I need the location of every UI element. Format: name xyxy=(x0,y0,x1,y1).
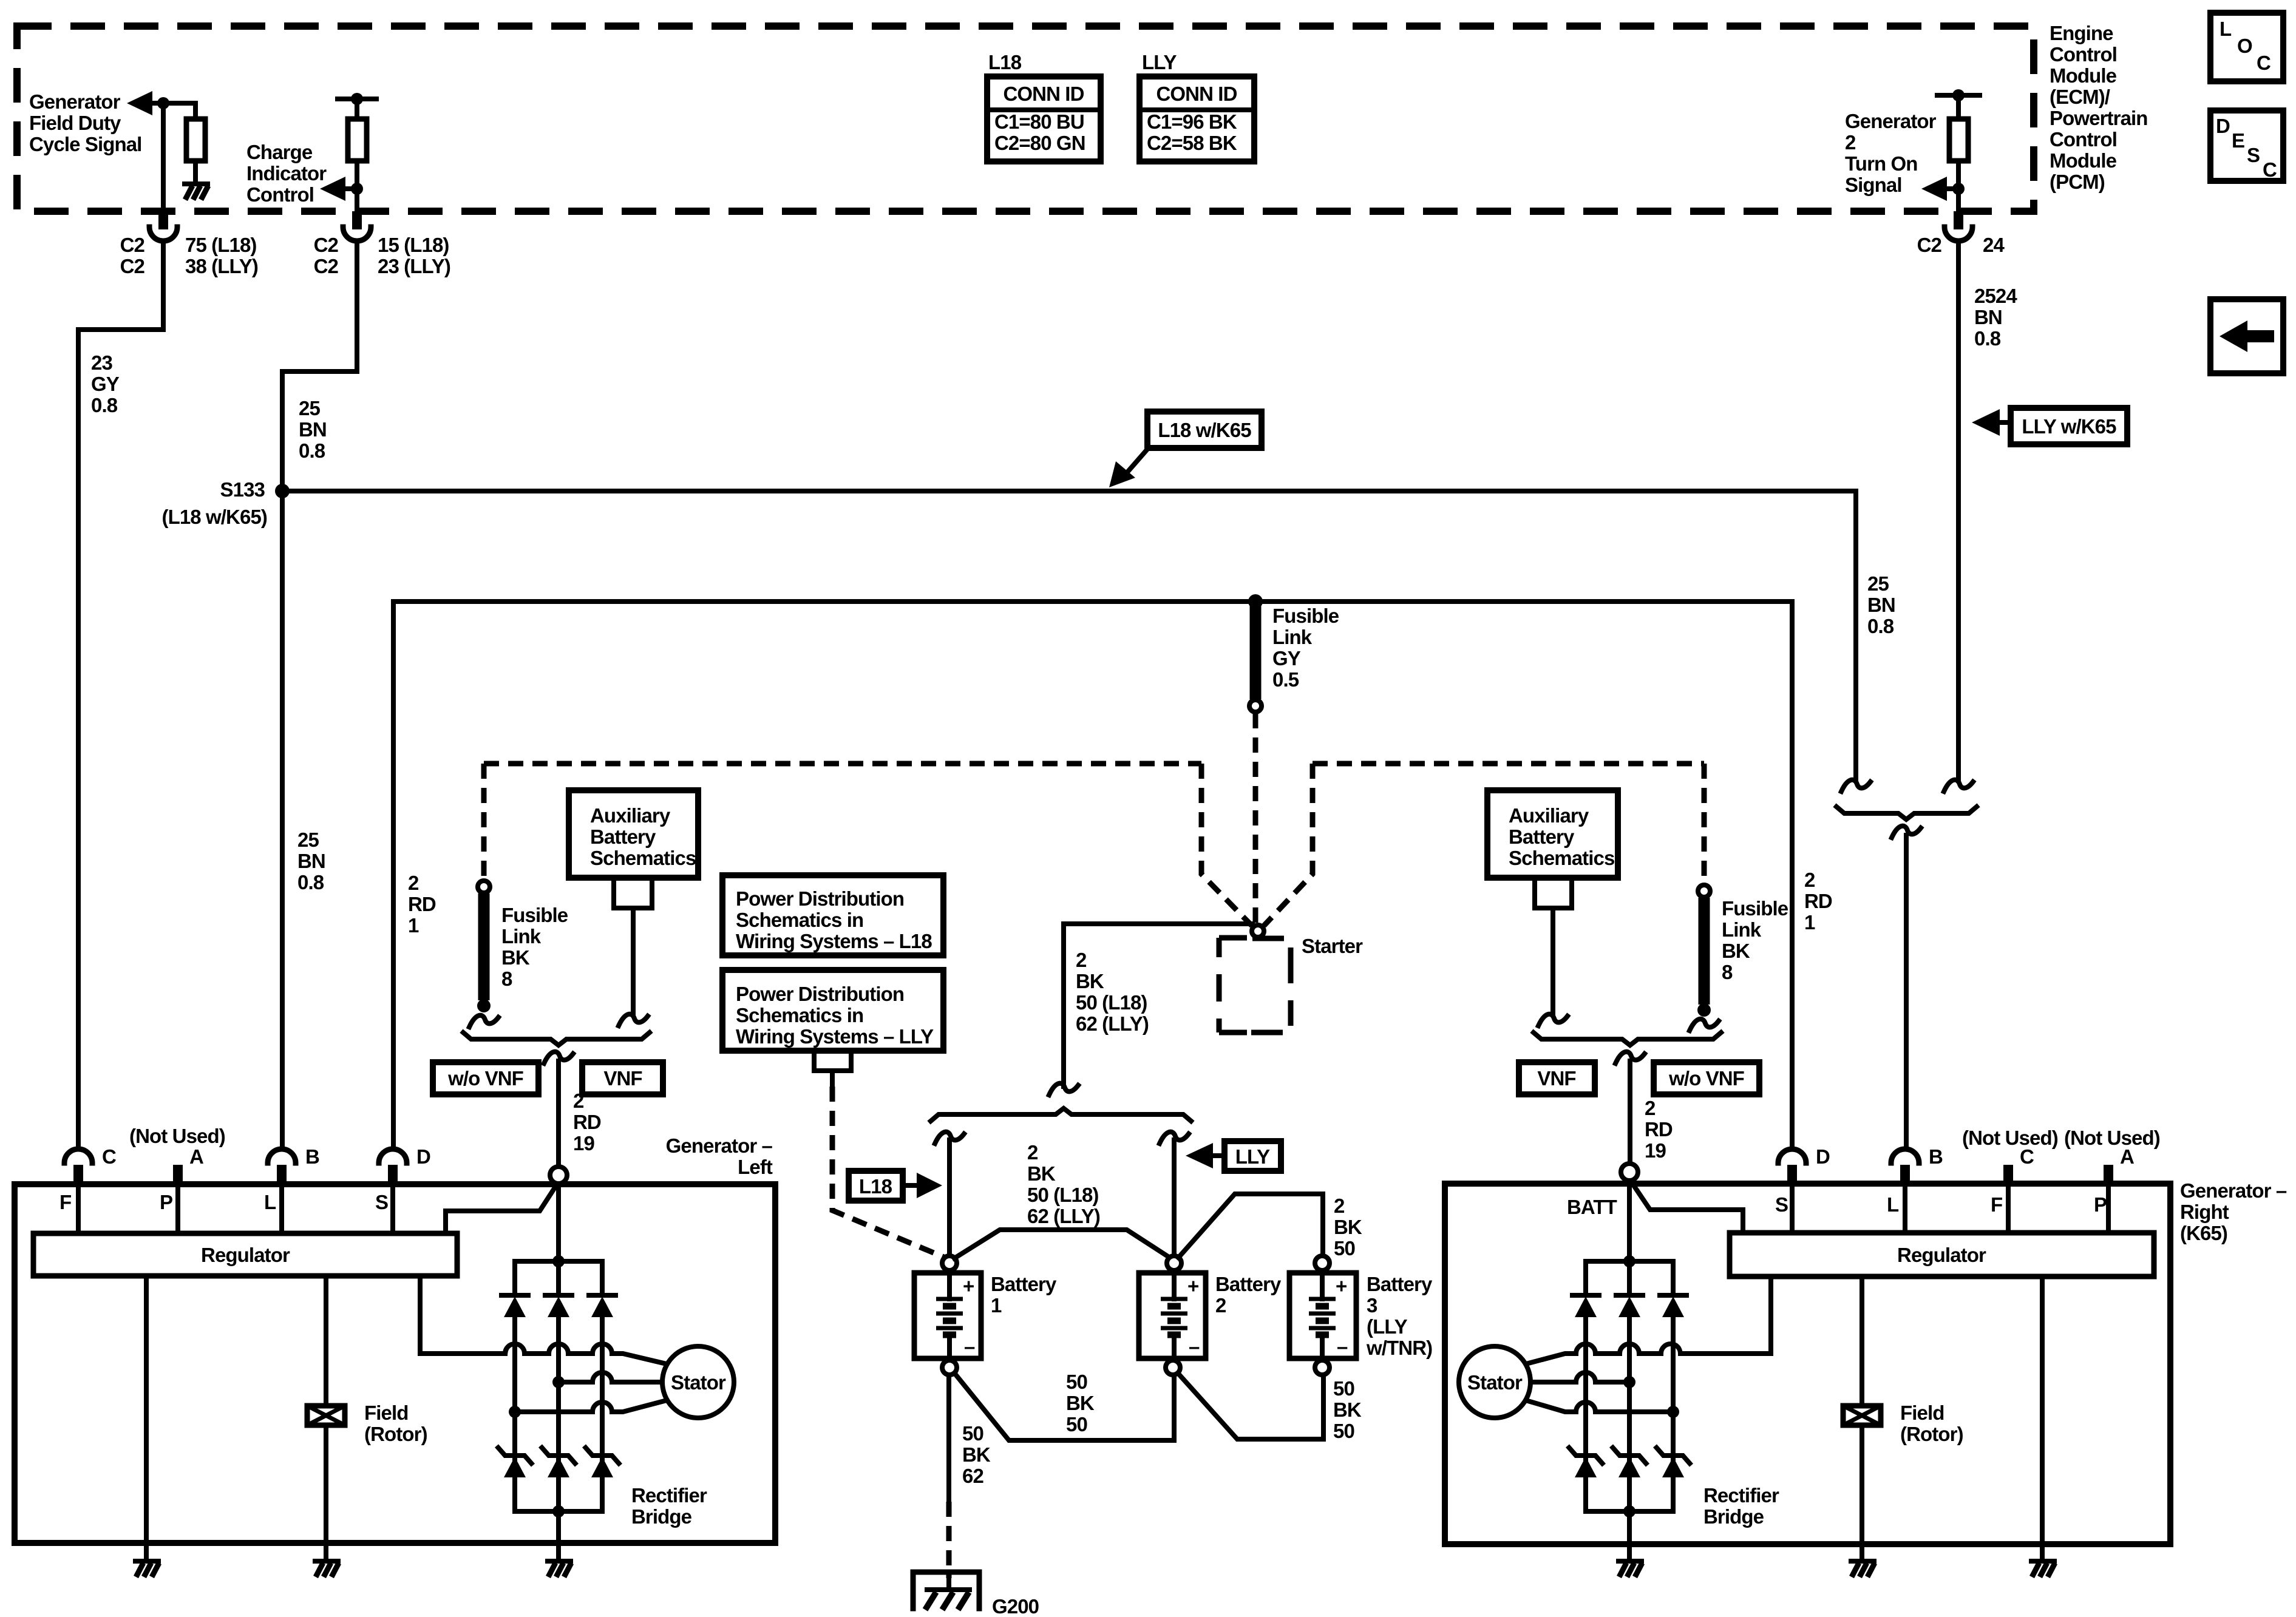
diode 2 top row right xyxy=(1616,1295,1643,1317)
wire starter to battery split xyxy=(1064,924,1252,1086)
wire battery2 positive leg xyxy=(1172,1140,1177,1255)
stator circle right xyxy=(1459,1346,1530,1418)
battery 2 cell plates xyxy=(1161,1270,1187,1360)
BATT terminal circle left generator xyxy=(550,1167,567,1184)
rectifier column 3 right xyxy=(1671,1261,1676,1511)
svg-text:(Not Used): (Not Used) xyxy=(129,1125,225,1147)
wire bar to resistor right xyxy=(1956,95,1961,119)
battery 1 cell plates xyxy=(936,1270,963,1360)
dashed drop to fusible link BK8 right xyxy=(1702,764,1707,883)
label box LLY w/K65 xyxy=(2011,408,2127,444)
wire break above battery brace xyxy=(1049,1083,1078,1095)
brace splitting starter wire to batteries xyxy=(931,1108,1191,1121)
battery 1 polarity marks xyxy=(963,1275,975,1358)
wire regulator to ground 1 xyxy=(144,1276,149,1561)
fork under power distribution LLY box xyxy=(814,1051,851,1086)
svg-text:CONN ID: CONN ID xyxy=(1156,83,1237,105)
CONN ID table L18 xyxy=(987,76,1101,161)
stator phase A wire with hops right xyxy=(1524,1344,1680,1364)
wire 23 GY 0.8 from connector to F pin xyxy=(78,242,163,1148)
wire regulator to field right xyxy=(1860,1276,1864,1406)
fork under aux box left xyxy=(614,878,652,1015)
svg-text:C2=58 BK: C2=58 BK xyxy=(1147,132,1237,154)
splice S133 xyxy=(275,484,290,498)
arrow from L18 box to battery1 wire (points right) xyxy=(903,1183,918,1188)
battery2 positive terminal xyxy=(1167,1256,1181,1270)
wire bus battery-feed horizontal (2 RD) xyxy=(393,599,1792,604)
wire 2 RD 19 left down to generator BATT xyxy=(556,1061,561,1167)
wire pin F to regulator right xyxy=(2006,1184,2011,1233)
ground symbol left gen 2 xyxy=(315,1561,339,1577)
wire break below left brace xyxy=(544,1052,573,1063)
connector C2 stub (charge indicator) xyxy=(352,211,362,229)
label box LLY (battery feed) xyxy=(1224,1141,1281,1171)
top bar generator2 resistor xyxy=(1937,93,1980,98)
regulator box left xyxy=(33,1233,457,1276)
wire break below right-top brace xyxy=(1892,826,1921,838)
svg-text:F: F xyxy=(1991,1193,2002,1216)
wire 2 RD 19 right down to generator BATT xyxy=(1628,1061,1632,1164)
node dot on battery feed bus xyxy=(1248,594,1263,609)
battery1 positive terminal xyxy=(942,1256,957,1270)
brace merging w/o VNF and VNF left xyxy=(463,1032,650,1045)
brace merging VNF and w/o VNF right xyxy=(1533,1032,1721,1045)
ground inside ECM xyxy=(185,184,208,200)
wire regulator to ground right xyxy=(2040,1276,2045,1561)
dashed harness drop right to starter xyxy=(1264,764,1313,926)
diode 3 top row left xyxy=(589,1295,616,1317)
wire 2524 BN 0.8 down xyxy=(1956,242,1961,781)
rectifier column 1 right xyxy=(1583,1261,1588,1511)
wire battery1+ to battery2+ (2 BK 50/62) xyxy=(954,1230,1170,1258)
battery3 negative terminal xyxy=(1315,1360,1330,1375)
svg-text:S: S xyxy=(1775,1193,1788,1216)
svg-text:Regulator: Regulator xyxy=(201,1244,290,1266)
fusible link BK8 left bottom dot xyxy=(477,999,491,1012)
svg-text:+: + xyxy=(963,1275,974,1297)
wire regulator to stator phases right xyxy=(1680,1276,1771,1354)
stator phase C wire with hop right xyxy=(1524,1400,1673,1412)
svg-text:A: A xyxy=(189,1145,203,1168)
wire 25 BN 0.8 upper segment xyxy=(282,242,357,491)
fusible link GY bottom terminal circle xyxy=(1249,700,1262,712)
svg-text:A: A xyxy=(2120,1145,2134,1168)
wire resistor to arrow node xyxy=(355,161,359,211)
BATT terminal circle right generator xyxy=(1621,1164,1638,1181)
back-arrow legend box xyxy=(2210,299,2283,373)
svg-text:–: – xyxy=(1189,1335,1200,1358)
wire pin S to regulator right xyxy=(1790,1184,1795,1233)
power distribution schematics L18 box xyxy=(722,875,943,955)
starter terminal circle xyxy=(1252,925,1264,937)
label box L18 w/K65 xyxy=(1147,412,1262,448)
fork under aux box right xyxy=(1535,878,1572,1015)
box VNF right xyxy=(1519,1062,1595,1094)
aux battery schematics box right xyxy=(1487,790,1618,878)
battery1 negative terminal xyxy=(942,1360,957,1375)
wire pin S to regulator xyxy=(390,1184,395,1233)
pin C stub right (not used) xyxy=(2003,1165,2013,1183)
dashed harness drop left to starter xyxy=(1201,764,1252,926)
svg-text:15 (L18)23 (LLY): 15 (L18)23 (LLY) xyxy=(378,234,450,277)
rectifier column 1 left xyxy=(512,1261,517,1511)
starter dashed box xyxy=(1219,938,1291,1032)
wire field duty down through dashed box xyxy=(161,103,166,211)
svg-text:Starter: Starter xyxy=(1302,935,1363,957)
LOC legend box xyxy=(2210,13,2283,81)
CONN ID table LLY xyxy=(1140,76,1254,161)
wire bar to resistor xyxy=(355,99,359,119)
wire battery1- to battery2- (50 BK 50) xyxy=(954,1373,1174,1440)
ground symbol right gen 3 xyxy=(2031,1561,2055,1577)
node dot charge indicator xyxy=(351,183,363,195)
wire resistor to ground xyxy=(193,161,198,183)
battery2 negative terminal xyxy=(1166,1360,1180,1375)
svg-text:C2C2: C2C2 xyxy=(120,234,145,277)
wire break fusible right xyxy=(1690,1019,1719,1031)
resistor inside ECM (charge indicator) xyxy=(348,119,367,161)
dashed drop to fusible link BK8 left xyxy=(481,764,487,879)
svg-text:P: P xyxy=(2094,1193,2107,1216)
svg-text:O: O xyxy=(2237,35,2252,57)
stator phase B wire with hop xyxy=(559,1372,663,1382)
generator right box xyxy=(1445,1184,2170,1544)
svg-text:LLY w/K65: LLY w/K65 xyxy=(2022,415,2116,438)
svg-text:75 (L18)38 (LLY): 75 (L18)38 (LLY) xyxy=(185,234,258,277)
svg-text:S: S xyxy=(2247,144,2260,166)
dashed wire to G200 xyxy=(946,1502,952,1578)
zener diode 1 bottom row left xyxy=(497,1446,533,1477)
svg-text:B: B xyxy=(305,1145,319,1168)
svg-text:D: D xyxy=(1816,1145,1830,1168)
dashed harness bus left xyxy=(484,761,1201,767)
rectifier column 2 right xyxy=(1627,1261,1632,1511)
ground symbol left gen 1 xyxy=(135,1561,159,1577)
ground symbol right gen 2 xyxy=(1851,1561,1875,1577)
pin D stub right xyxy=(1787,1165,1797,1183)
ECM/PCM module dashed box xyxy=(17,26,2034,211)
svg-text:L: L xyxy=(1887,1193,1899,1216)
wire break on 25 BN right xyxy=(1841,780,1870,792)
svg-text:F: F xyxy=(59,1191,71,1213)
svg-text:C: C xyxy=(102,1145,116,1168)
svg-text:L18 w/K65: L18 w/K65 xyxy=(1158,419,1251,441)
wire break fusible left xyxy=(469,1015,498,1027)
svg-text:L18: L18 xyxy=(859,1175,892,1198)
label box L18 (battery feed) xyxy=(849,1171,903,1201)
wire from node to resistor R-field xyxy=(163,103,195,119)
wire break battery1 leg xyxy=(935,1132,964,1144)
wire break below right brace xyxy=(1615,1052,1645,1063)
pin A stub (not used) xyxy=(173,1165,183,1183)
arrow charge indicator control (points left) xyxy=(320,177,345,201)
stator phase C wire with hop xyxy=(515,1400,669,1412)
svg-text:Regulator: Regulator xyxy=(1897,1244,1986,1266)
battery 3 cell plates xyxy=(1309,1270,1336,1360)
box w/o VNF left xyxy=(433,1062,538,1094)
arrow generator 2 turn on signal (points left) xyxy=(1921,177,1947,201)
rectifier column 2 left xyxy=(556,1261,561,1511)
wire 2 RD 1 left leg to generator-left pin D xyxy=(391,602,396,1148)
svg-text:Stator: Stator xyxy=(671,1371,726,1394)
svg-text:(Not Used): (Not Used) xyxy=(1962,1127,2058,1149)
node dot field duty xyxy=(157,97,169,109)
wire BATT down to rectifier xyxy=(556,1184,561,1261)
svg-text:24: 24 xyxy=(1983,234,2005,256)
svg-text:L: L xyxy=(2220,18,2232,40)
rectifier top bus left xyxy=(515,1259,602,1264)
rectifier top bus right xyxy=(1586,1259,1673,1264)
wire battery2- to battery3- (50 BK 50) xyxy=(1178,1373,1323,1439)
wire BATT to regulator right xyxy=(1634,1185,1743,1233)
svg-text:C1=80 BU: C1=80 BU xyxy=(994,110,1084,133)
dashed wire to battery 1 positive xyxy=(832,1086,945,1258)
wire resistor to arrow node right xyxy=(1956,161,1961,211)
pin B stub right xyxy=(1900,1165,1910,1183)
pin B connector dome right xyxy=(1891,1149,1919,1163)
svg-text:G200: G200 xyxy=(992,1595,1039,1617)
svg-text:E: E xyxy=(2232,129,2244,152)
svg-text:C: C xyxy=(2257,52,2271,74)
svg-text:LLY: LLY xyxy=(1142,51,1177,73)
battery 2 box xyxy=(1139,1273,1206,1358)
connector C2 cup (field duty) xyxy=(149,227,177,241)
wire break aux stem right xyxy=(1538,1014,1567,1026)
svg-text:D: D xyxy=(2216,115,2230,137)
wire rectifier to ground right xyxy=(1627,1511,1632,1561)
zener diode 3 bottom row right xyxy=(1655,1446,1691,1477)
wire break battery2 leg xyxy=(1160,1132,1189,1144)
arrow from LLY box to battery2 wire (points left) xyxy=(1212,1153,1224,1158)
svg-text:–: – xyxy=(1337,1335,1348,1358)
brace merging 25BN and 2524BN xyxy=(1836,807,1977,819)
wire break aux stem left xyxy=(619,1014,648,1026)
rectifier bottom bus right xyxy=(1586,1509,1673,1514)
svg-text:LLY: LLY xyxy=(1235,1145,1270,1168)
wire 2 RD 1 right leg to generator-right pin D xyxy=(1790,602,1795,1148)
svg-text:(Not Used): (Not Used) xyxy=(2064,1127,2160,1149)
pin C connector dome xyxy=(64,1149,92,1163)
top bar charge indicator resistor xyxy=(338,97,376,101)
svg-text:C: C xyxy=(2263,158,2277,181)
wire bus S133 horizontal xyxy=(282,489,1856,493)
svg-text:C2=80 GN: C2=80 GN xyxy=(994,132,1085,154)
dashed wire GY link to starter xyxy=(1253,713,1258,923)
battery 2 polarity marks xyxy=(1187,1275,1200,1358)
svg-text:C: C xyxy=(2020,1145,2034,1168)
svg-text:–: – xyxy=(964,1335,975,1358)
svg-text:B: B xyxy=(1929,1145,1943,1168)
wire battery1 positive leg xyxy=(947,1140,952,1255)
arrow generator field duty signal (points left) xyxy=(127,91,152,115)
regulator box right xyxy=(1730,1233,2154,1276)
wire regulator to field xyxy=(324,1276,328,1406)
stator circle left xyxy=(662,1346,734,1418)
wire pin P to regulator right xyxy=(2106,1184,2111,1233)
svg-text:L18: L18 xyxy=(988,51,1022,73)
battery 1 box xyxy=(914,1273,981,1358)
diode 1 top row left xyxy=(501,1295,528,1317)
svg-text:w/o VNF: w/o VNF xyxy=(1668,1067,1744,1090)
zener diode 1 bottom row right xyxy=(1567,1446,1604,1477)
wire battery2+ to battery3+ (2 BK 50) xyxy=(1178,1194,1323,1258)
svg-text:VNF: VNF xyxy=(603,1067,642,1090)
battery3 positive terminal xyxy=(1315,1256,1330,1270)
svg-text:Stator: Stator xyxy=(1467,1371,1523,1394)
wire pin L to regulator xyxy=(279,1184,284,1233)
stator phase A wire with hops xyxy=(505,1344,669,1364)
pin B stub xyxy=(277,1165,287,1183)
stator phase B wire with hop right xyxy=(1525,1372,1629,1382)
pin B connector dome xyxy=(268,1149,296,1163)
fusible link GY 0.5 element xyxy=(1250,605,1262,699)
diode 3 top row right xyxy=(1660,1295,1686,1317)
zener diode 2 bottom row left xyxy=(540,1446,577,1477)
svg-text:P: P xyxy=(160,1191,172,1213)
battery 3 box xyxy=(1289,1273,1356,1358)
ground symbol left gen 3 xyxy=(548,1561,571,1577)
svg-text:CONN ID: CONN ID xyxy=(1003,83,1084,105)
svg-text:w/o VNF: w/o VNF xyxy=(447,1067,523,1090)
wire BATT down to rectifier right xyxy=(1627,1181,1632,1261)
connector C2 stub (field duty) xyxy=(158,211,168,229)
DESC legend box xyxy=(2210,110,2283,181)
fusible link BK8 left top circle xyxy=(478,881,490,893)
pin A stub right (not used) xyxy=(2104,1165,2113,1183)
rectifier bottom bus left xyxy=(515,1509,602,1514)
wire rectifier to ground xyxy=(556,1511,561,1561)
svg-text:D: D xyxy=(416,1145,430,1168)
wire regulator to stator phases xyxy=(420,1276,505,1354)
ground symbol right gen 1 xyxy=(1618,1561,1642,1577)
resistor inside ECM (generator 2 turn on) xyxy=(1949,119,1968,161)
wire pin F to regulator xyxy=(76,1184,81,1233)
svg-text:VNF: VNF xyxy=(1537,1067,1575,1090)
connector C2 cup (generator 2 signal) xyxy=(1944,227,1972,241)
svg-text:C1=96 BK: C1=96 BK xyxy=(1147,110,1237,133)
arrow from LLY w/K65 box to wire xyxy=(1999,420,2011,425)
aux battery schematics box left xyxy=(569,790,698,878)
pin D stub xyxy=(388,1165,398,1183)
diode 2 top row left xyxy=(545,1295,572,1317)
pin D connector dome right xyxy=(1778,1149,1806,1163)
fusible link BK 8 right element xyxy=(1699,898,1710,1005)
fusible link BK 8 left element xyxy=(478,893,490,1000)
pin C stub xyxy=(73,1165,83,1183)
svg-text:S: S xyxy=(375,1191,388,1213)
connector C2 cup (charge indicator) xyxy=(343,227,371,241)
battery 3 polarity marks xyxy=(1336,1275,1348,1358)
fusible link BK8 right top circle xyxy=(1698,885,1710,897)
wire 25 BN 0.8 lower (S133 to generator-left pin B) xyxy=(280,491,285,1148)
box w/o VNF right xyxy=(1654,1062,1759,1094)
arrow from L18 w/K65 box to bus xyxy=(1127,449,1147,473)
svg-text:+: + xyxy=(1336,1275,1347,1297)
svg-text:L: L xyxy=(264,1191,276,1213)
wire 25 BN 0.8 right leg down xyxy=(1853,491,1858,781)
wire pin P to regulator xyxy=(175,1184,180,1233)
zener diode 3 bottom row left xyxy=(584,1446,620,1477)
diode 1 top row right xyxy=(1572,1295,1599,1317)
zener diode 2 bottom row right xyxy=(1611,1446,1648,1477)
box VNF left xyxy=(582,1062,663,1094)
svg-text:BATT: BATT xyxy=(1567,1196,1617,1218)
wire pin L to regulator right xyxy=(1903,1184,1907,1233)
dashed harness bus right xyxy=(1313,761,1704,767)
wire field to ground right xyxy=(1860,1425,1864,1561)
field rotor symbol left xyxy=(307,1406,345,1425)
svg-text:C2C2: C2C2 xyxy=(314,234,339,277)
svg-text:C2: C2 xyxy=(1917,234,1942,256)
resistor inside ECM (field duty) xyxy=(186,119,205,161)
node dot generator2 xyxy=(1952,183,1965,195)
fusible link BK8 right bottom dot xyxy=(1697,1003,1711,1017)
rectifier column 3 left xyxy=(600,1261,605,1511)
pin D connector dome xyxy=(379,1149,407,1163)
connector C2 stub (generator 2 signal) xyxy=(1954,211,1963,229)
generator left box xyxy=(15,1184,775,1543)
wire from brace to generator-right pin B xyxy=(1904,835,1909,1148)
ground G200 symbol xyxy=(913,1572,979,1610)
wire break on 2524 BN xyxy=(1944,780,1973,792)
svg-text:+: + xyxy=(1187,1275,1198,1297)
power distribution schematics LLY box xyxy=(722,970,943,1051)
wire battery1- to ground (50 BK 62) xyxy=(946,1375,951,1502)
wire field to ground xyxy=(324,1425,328,1561)
field rotor symbol right xyxy=(1843,1406,1881,1425)
wire BATT to regulator xyxy=(446,1188,554,1233)
